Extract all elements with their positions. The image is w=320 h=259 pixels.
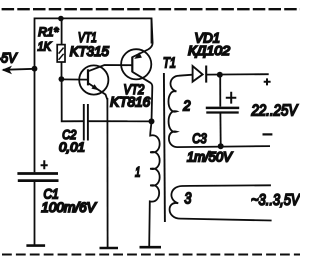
wire winding2 bottom to output - xyxy=(177,146,270,147)
node R1/base junction xyxy=(59,76,65,82)
svg-text:VT1: VT1 xyxy=(78,30,97,45)
transformer core xyxy=(164,73,165,222)
node R1 top xyxy=(58,16,64,22)
svg-text:1K: 1K xyxy=(38,40,52,54)
capacitor C1 xyxy=(17,160,58,180)
capacitor C2 xyxy=(84,104,88,141)
ground bar middle xyxy=(100,247,119,250)
svg-text:-5V: -5V xyxy=(0,50,18,66)
svg-text:22..25V: 22..25V xyxy=(251,102,299,119)
svg-text:C3: C3 xyxy=(192,130,207,146)
label output + xyxy=(264,78,271,85)
capacitor C3 xyxy=(206,75,239,147)
diode VD1 xyxy=(193,66,207,83)
svg-text:2: 2 xyxy=(182,99,191,115)
wire R1 bottom lead xyxy=(61,62,63,79)
svg-text:3: 3 xyxy=(184,191,191,208)
dashed chassis border top xyxy=(0,8,300,10)
node C3 bottom xyxy=(218,143,224,149)
ground bar left xyxy=(26,244,45,247)
svg-text:1m/50V: 1m/50V xyxy=(187,150,234,165)
node C3 top xyxy=(217,72,223,78)
wire -5V feed xyxy=(3,69,35,70)
arrow -5V xyxy=(2,66,13,75)
wire base VT1 xyxy=(61,78,88,80)
transformer T1 winding 1 xyxy=(149,121,159,247)
svg-text:R1*: R1* xyxy=(38,25,59,39)
wire C2 branch down xyxy=(62,79,84,121)
transformer T1 winding 2 xyxy=(168,75,192,147)
svg-text:KT816: KT816 xyxy=(110,95,150,110)
ground bar right xyxy=(140,246,162,249)
svg-text:1: 1 xyxy=(135,163,141,179)
wire C1 to ground bar xyxy=(34,182,36,246)
transformer T1 winding 3 xyxy=(170,186,190,219)
resistor R1 xyxy=(57,45,65,62)
label output - xyxy=(263,133,273,135)
transistor VT2 xyxy=(121,18,153,121)
wire winding3 top xyxy=(190,184,271,187)
transistor VT1 xyxy=(79,65,132,100)
wire top rail xyxy=(35,18,152,172)
wire R1 top lead xyxy=(61,19,63,45)
dashed chassis border bottom xyxy=(0,254,300,256)
svg-text:100m/6V: 100m/6V xyxy=(41,200,97,215)
wire diode to output + xyxy=(206,73,269,75)
wire winding3 bottom xyxy=(181,219,272,221)
svg-text:0,01: 0,01 xyxy=(59,140,85,154)
svg-text:KT315: KT315 xyxy=(70,44,110,59)
svg-text:T1: T1 xyxy=(163,55,176,71)
wire C2 to VT2 collector node xyxy=(88,120,152,122)
svg-text:~3..3,5V: ~3..3,5V xyxy=(251,192,300,209)
wire VT1 emitter down xyxy=(106,98,108,247)
node -5V rail junction xyxy=(32,66,38,72)
node collector / winding1 / C2 xyxy=(149,118,155,124)
svg-text:КД102: КД102 xyxy=(188,43,231,58)
